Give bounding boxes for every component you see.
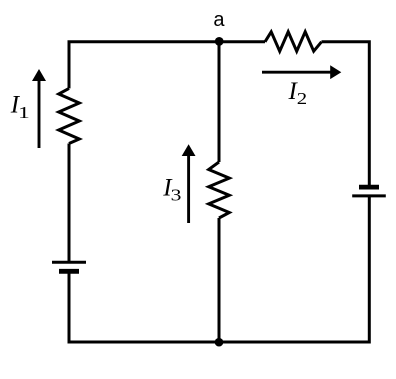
battery (right branch): short negative plate — [359, 185, 379, 190]
wire: middle branch from node a down to resistor — [218, 42, 221, 162]
label I2 — [288, 78, 308, 108]
resistor (left branch, vertical zigzag) — [59, 88, 80, 143]
wire: left branch between resistor and battery — [68, 144, 71, 263]
wire: middle branch from resistor to bottom junction — [218, 218, 221, 342]
battery (left branch): long positive plate — [52, 261, 86, 264]
label I1 — [10, 92, 30, 123]
resistor (middle branch, vertical zigzag) — [209, 162, 230, 218]
current arrow I1 (upward, left branch) — [32, 69, 46, 148]
battery (left branch): short negative plate — [59, 269, 79, 274]
svg-text:3: 3 — [171, 185, 182, 204]
svg-text:1: 1 — [18, 103, 30, 122]
wire: right branch below battery + bottom rail + bottom-left corner + left branch up to battery — [69, 196, 369, 342]
svg-text:2: 2 — [297, 89, 307, 108]
battery (right branch): long positive plate — [352, 194, 386, 197]
resistor (top right branch, horizontal zigzag) — [265, 32, 322, 51]
node a junction dot — [215, 37, 224, 46]
current arrow I2 (rightward, top branch) — [262, 65, 341, 79]
wire: top rail from resistor + top-right corner + right branch down to battery — [322, 42, 370, 187]
current arrow I3 (upward, middle branch) — [182, 144, 196, 223]
svg-text:a: a — [213, 9, 225, 31]
label I3 — [162, 174, 181, 204]
wire: left branch top + top-left corner + top rail to resistor — [69, 42, 265, 89]
junction dot (bottom node) — [215, 338, 224, 347]
